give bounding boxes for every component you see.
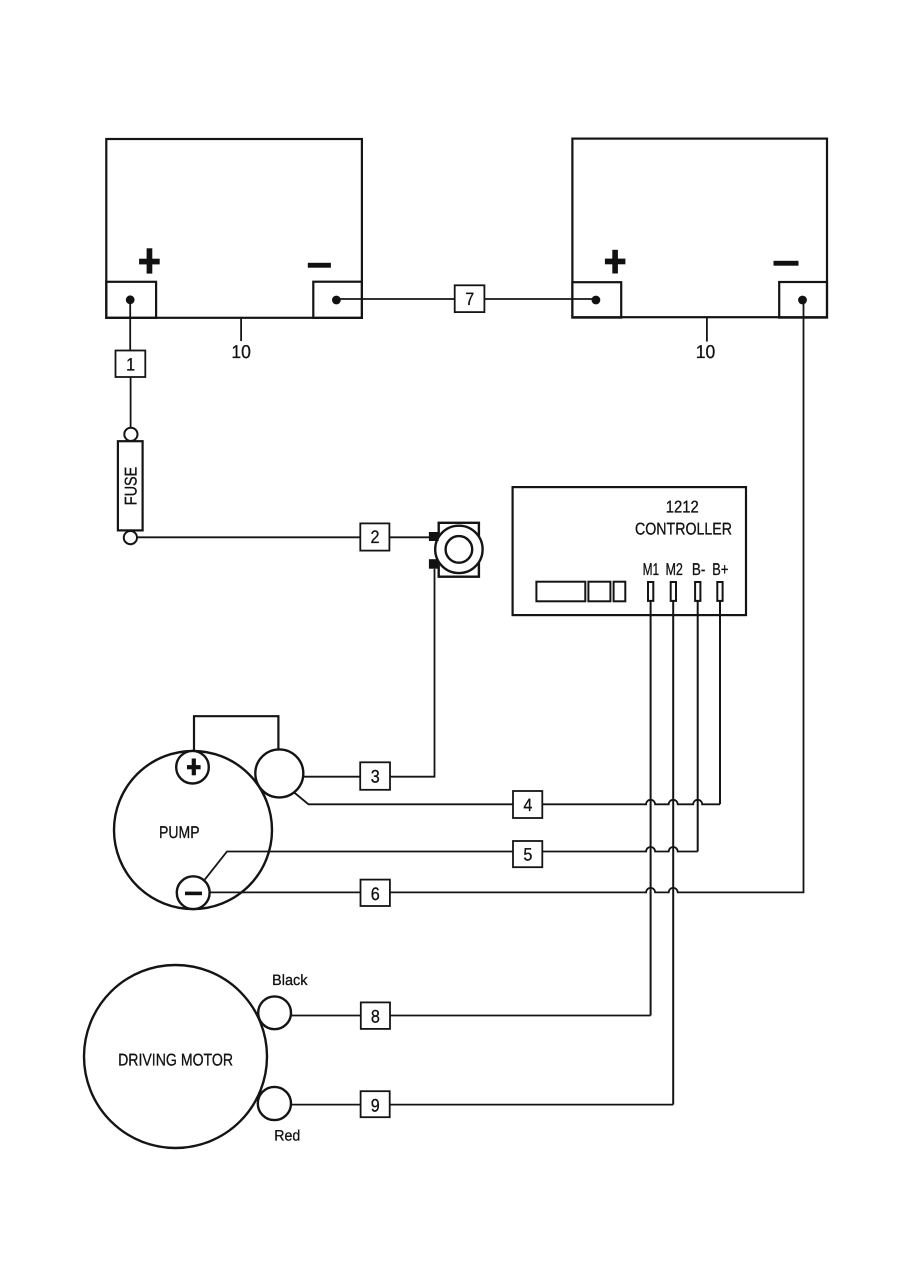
pump auxiliary terminal circle	[255, 749, 303, 797]
right battery leader tick	[706, 318, 708, 342]
controller connector block middle	[588, 582, 610, 602]
motor black terminal circle	[258, 996, 291, 1029]
wire 4: pump aux terminal to box 4	[294, 793, 513, 805]
solenoid top terminal lug	[429, 532, 439, 541]
wire label box 7	[455, 285, 485, 312]
wire 1: battery + down to box 1	[129, 300, 131, 351]
wire 6: pump - terminal to box 6	[210, 891, 361, 893]
svg-text:1: 1	[126, 355, 135, 375]
fuse top terminal circle	[124, 428, 137, 441]
svg-text:DRIVING MOTOR: DRIVING MOTOR	[118, 1051, 233, 1070]
fuse bottom terminal circle	[124, 531, 137, 544]
pump positive terminal circle	[176, 751, 209, 784]
junction dot: right battery - terminal	[798, 296, 807, 305]
svg-text:M1: M1	[643, 560, 660, 579]
left battery plus symbol	[139, 248, 160, 273]
wire label box 3	[360, 762, 390, 790]
value label 10 (left battery)	[231, 341, 251, 362]
motor red terminal circle	[258, 1087, 291, 1120]
svg-text:M2: M2	[665, 560, 683, 579]
svg-text:7: 7	[465, 289, 474, 309]
fuse body	[118, 441, 143, 530]
right battery minus symbol	[774, 261, 799, 266]
wire 8: motor black terminal to box 8	[291, 1015, 361, 1017]
junction dot: left battery - terminal	[332, 296, 341, 305]
svg-text:3: 3	[371, 767, 380, 787]
svg-text:10: 10	[231, 341, 251, 362]
wire 8: box 8 to M1	[390, 1015, 651, 1017]
wire 3: solenoid aux terminal to box 3	[303, 776, 360, 778]
left battery leader tick	[240, 319, 242, 342]
fuse label FUSE	[122, 467, 141, 506]
solenoid connector body	[439, 523, 479, 577]
terminal pin B-	[695, 582, 700, 601]
wire label box 5	[513, 841, 542, 867]
left battery minus symbol	[308, 263, 331, 268]
wire label box 9	[361, 1091, 390, 1117]
svg-text:4: 4	[523, 795, 532, 815]
pin label B-	[692, 560, 706, 579]
controller 1212 body	[513, 487, 746, 615]
right battery positive terminal box	[572, 282, 621, 317]
junction dot: right battery + terminal	[592, 296, 601, 305]
pump label PUMP	[159, 823, 200, 842]
wire 9: box 9 to M2	[390, 1104, 674, 1106]
value label 10 (right battery)	[696, 341, 716, 362]
wire 9: motor red terminal to box 9	[291, 1104, 361, 1106]
wire: M1 pin down to wire 8 corner	[650, 601, 652, 1016]
controller connector block large	[536, 582, 585, 602]
terminal label Red	[274, 1127, 300, 1144]
wire label box 4	[513, 791, 542, 818]
driving motor label	[118, 1051, 233, 1070]
svg-text:B+: B+	[712, 560, 728, 579]
wire: box 1 to fuse	[130, 377, 132, 428]
right battery negative terminal box	[779, 282, 827, 318]
wire 5: pump - terminal to box 5	[205, 852, 513, 880]
svg-text:10: 10	[696, 341, 716, 362]
svg-text:5: 5	[523, 845, 532, 865]
wire label box 1	[116, 351, 146, 378]
terminal label Black	[272, 972, 308, 989]
wire: solenoid down to wire 3	[390, 569, 435, 777]
wire 7: left battery - to box 7	[336, 298, 454, 300]
svg-text:8: 8	[371, 1006, 380, 1026]
terminal pin M1	[648, 582, 653, 601]
left battery positive terminal box	[106, 282, 156, 318]
terminal pin B+	[717, 582, 722, 601]
wire: M2 pin down to wire 9 corner	[672, 601, 674, 1105]
wire: B- pin down to wire 5 corner	[697, 601, 699, 852]
wire 2: box 2 to solenoid terminal	[389, 536, 429, 538]
svg-text:1212: 1212	[666, 498, 699, 517]
pin label M1	[643, 560, 660, 579]
wire 4: box 4 to B+ (hops over M1,M2,B-)	[542, 800, 720, 804]
wire 2: fuse to box 2	[137, 536, 360, 538]
pump motor body	[114, 751, 272, 909]
svg-text:9: 9	[371, 1096, 380, 1116]
controller connector block small	[614, 582, 626, 602]
controller label CONTROLLER	[635, 519, 732, 538]
junction dot: left battery + terminal	[126, 295, 135, 304]
driving motor body	[84, 965, 267, 1148]
svg-text:CONTROLLER: CONTROLLER	[635, 519, 732, 538]
wire label box 8	[361, 1002, 390, 1029]
right battery plus symbol	[605, 250, 626, 274]
pump negative terminal circle	[177, 876, 210, 909]
wire 7: box 7 to right battery +	[484, 298, 596, 300]
svg-text:6: 6	[371, 884, 380, 904]
svg-text:FUSE: FUSE	[122, 467, 141, 506]
solenoid bottom terminal lug	[429, 559, 438, 569]
pump jumper bracket wire	[194, 716, 278, 752]
svg-text:Black: Black	[272, 972, 308, 989]
battery 10 (left) body	[106, 139, 362, 318]
wire: B+ pin down to wire 4 corner	[719, 601, 721, 804]
pin label M2	[665, 560, 683, 579]
controller label 1212	[666, 498, 699, 517]
svg-text:2: 2	[371, 527, 380, 547]
battery 10 (right) body	[572, 139, 827, 318]
wire label box 6	[361, 880, 390, 906]
solenoid inner ring	[446, 536, 473, 563]
pin label B+	[712, 560, 728, 579]
svg-text:Red: Red	[274, 1127, 300, 1144]
svg-text:PUMP: PUMP	[159, 823, 200, 842]
wire label box 2	[360, 523, 389, 550]
solenoid outer ring	[435, 526, 482, 573]
svg-text:B-: B-	[692, 560, 706, 579]
wire 6: box 6 to right battery - (hops over M1,M2)	[390, 300, 804, 892]
terminal pin M2	[671, 582, 676, 601]
wire 5: box 5 to B- (hops over M1,M2)	[542, 847, 697, 852]
left battery negative terminal box	[313, 282, 362, 318]
